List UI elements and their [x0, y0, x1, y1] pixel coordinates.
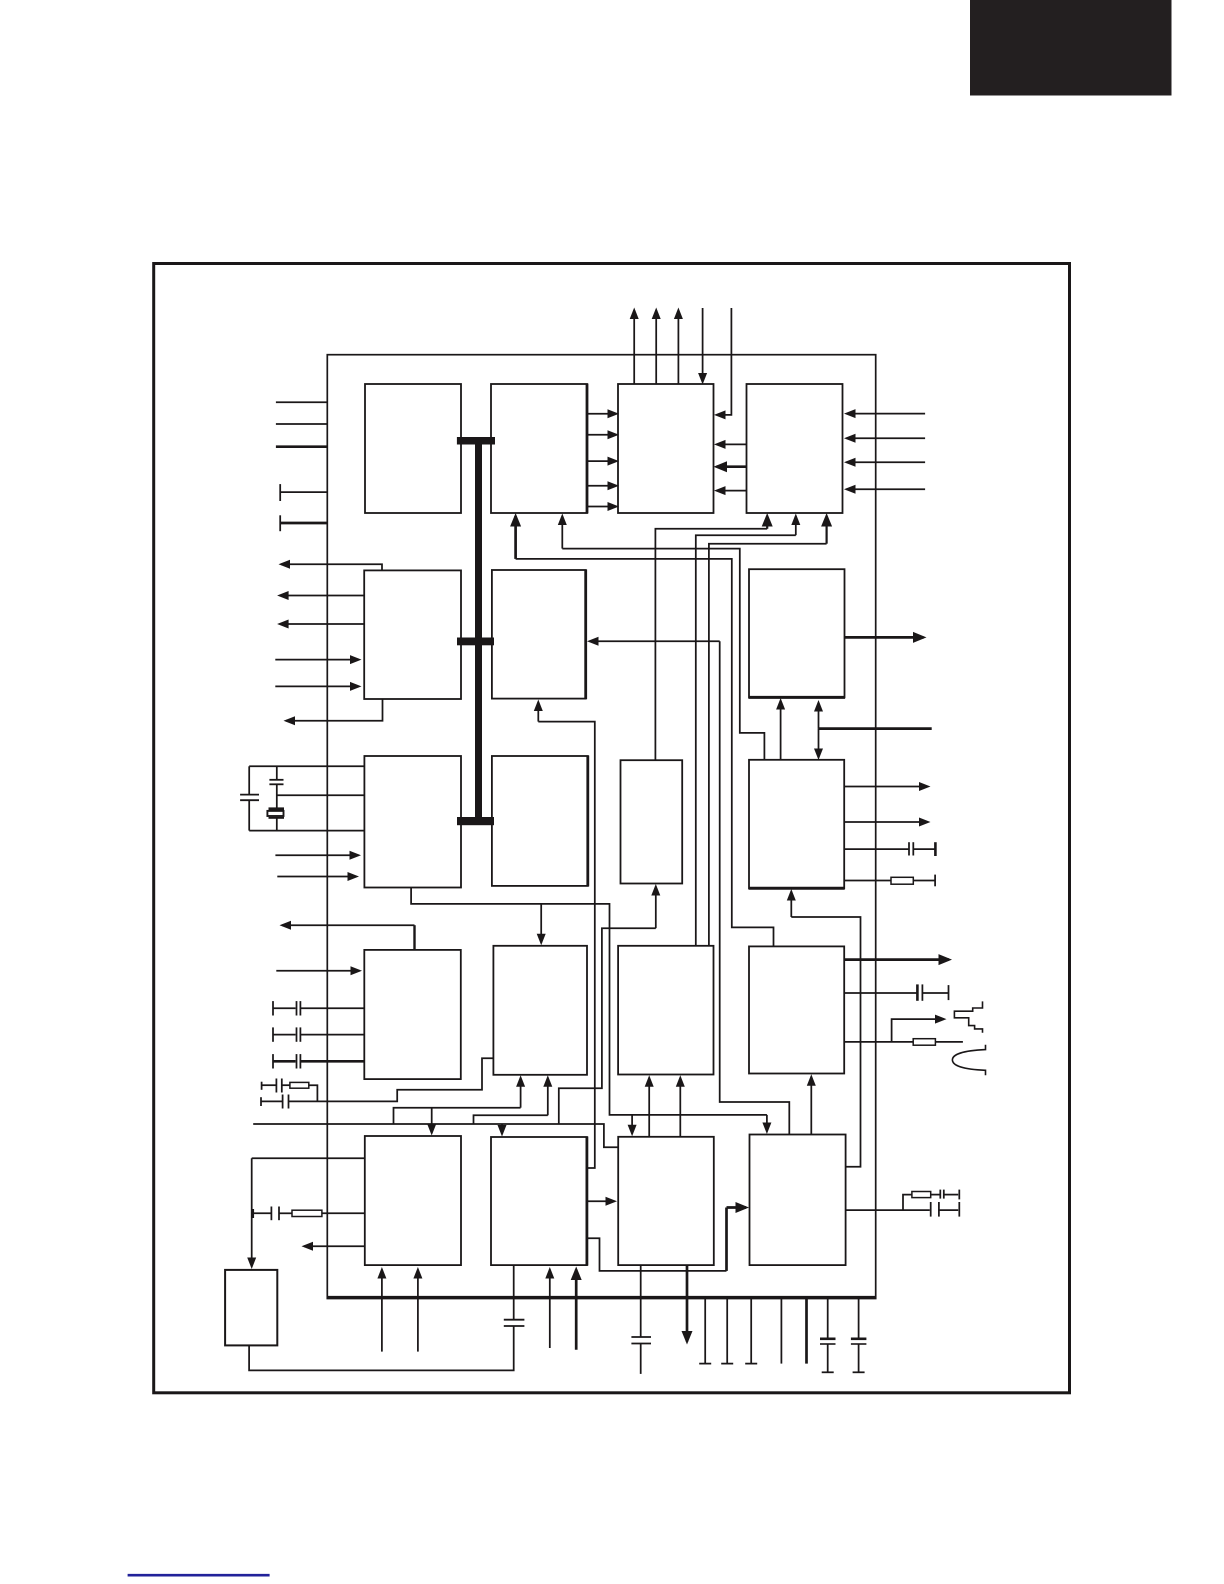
stub arrow into R5C2 bottom B thick	[575, 1270, 578, 1350]
arrow R5C2 to R5C3	[587, 1200, 615, 1202]
terminal bar L19	[252, 1209, 254, 1218]
branch arrow into R4C2 top	[540, 904, 542, 943]
thick out-arrow R2C4 right	[845, 636, 924, 639]
arrow R3C4 top to R2C4 bottom	[780, 701, 782, 760]
thick stub from double arrow to right	[819, 727, 932, 730]
pin in-arrow L13	[277, 876, 356, 878]
arrow R1C2 to R1C3 #2	[587, 434, 617, 436]
terminal bar RC bottom	[260, 1097, 262, 1106]
capacitor R5C4 upper	[939, 1190, 941, 1199]
ground stub 1	[704, 1298, 706, 1363]
pin in-arrow L15	[276, 970, 359, 972]
capacitor EXT net	[504, 1325, 525, 1327]
wire R5C2 right edge to R2C2 bottom arrow	[538, 722, 595, 1168]
wire control net main	[253, 1124, 618, 1147]
block R3C4	[749, 760, 845, 888]
bus bar vertical	[475, 440, 482, 822]
block R3C1	[364, 756, 461, 888]
pin stub L2	[276, 423, 327, 425]
terminal bar R5C4 upper	[958, 1190, 960, 1200]
block R5C4	[750, 1135, 846, 1266]
open stub 4	[780, 1298, 782, 1363]
resistor L19	[279, 1212, 292, 1214]
thick down arrow R5C3 bottom	[686, 1265, 689, 1341]
arrow R1C4 to R1C3 #1	[717, 443, 747, 445]
pin stub L1	[276, 401, 327, 403]
terminal bar L4	[279, 484, 281, 501]
wire R3C1 bottom fanout	[411, 888, 767, 1115]
double arrow R2C4 / R3C4	[818, 703, 820, 729]
bus tap middle	[457, 638, 494, 646]
resistor RC	[282, 1084, 290, 1086]
pin stub L3 thick	[276, 445, 327, 448]
arrow R1C2 to R1C3 #3	[587, 460, 617, 462]
pin in-arrow L9	[275, 659, 359, 661]
pin in-arrow R1C4 right #4	[847, 488, 926, 490]
ground stub 3	[750, 1298, 752, 1363]
stub arrow into R5C2 bottom A	[549, 1270, 551, 1349]
branch arrow into R5C2 top	[501, 1124, 503, 1134]
pin in-arrow L10	[275, 685, 359, 687]
block R5C2	[491, 1137, 587, 1266]
capacitor osc left	[248, 766, 250, 794]
wire osc pin 1	[249, 765, 364, 767]
arrow R1C4 to R1C3 #2 thick	[717, 465, 747, 468]
wire R5C1 to EXT arrow	[252, 1157, 365, 1159]
block R4C2	[493, 946, 587, 1075]
thick stub 5	[805, 1298, 808, 1363]
pin out-arrow L7	[280, 595, 365, 597]
capacitor stub 7	[858, 1298, 860, 1338]
ground stub 2	[726, 1298, 728, 1363]
pin in-arrow top 4	[702, 308, 704, 382]
pin stub L4	[280, 491, 327, 493]
IC boundary thick bottom edge	[327, 1296, 877, 1299]
pin out-arrow L20	[304, 1245, 365, 1247]
arrow R5C4 top to R4C4 bottom	[810, 1077, 812, 1135]
capacitor L19	[253, 1212, 271, 1214]
terminal bar R5C4 lower	[958, 1202, 960, 1217]
thick out-arrow R4C4	[844, 958, 949, 961]
sine waveform glyph	[952, 1045, 985, 1076]
outer frame	[154, 264, 1070, 1393]
wire R4C4 top to R1C2 bottom arrow (thick)	[516, 559, 774, 947]
block R3C3	[621, 760, 683, 883]
block R1C1	[365, 384, 461, 513]
pin out-arrow L14 (thick stub)	[413, 925, 415, 950]
wire R4C3 top to R1C4 bottom arrow A	[696, 535, 796, 946]
capacitor stub R5C3	[640, 1265, 642, 1337]
arrow R5C3 top to R4C3 bottom B	[679, 1078, 681, 1137]
IC boundary	[327, 355, 875, 1299]
pin stub L5 thick	[280, 522, 327, 525]
bus tap bottom	[457, 817, 494, 825]
branch up to sub-line A	[394, 1108, 521, 1124]
pin out-arrow R3C4 #2	[844, 821, 928, 823]
block R5C1	[365, 1136, 461, 1265]
wire R5C2 to R5C4 thick arrow	[587, 1238, 727, 1271]
arrow R1C2 to R1C3 #5	[587, 506, 617, 508]
resistor R5C4 upper	[903, 1195, 912, 1211]
branch up to R3C3 bottom arrow	[559, 928, 656, 1124]
resistor pin R3C4	[844, 880, 891, 882]
block R4C4	[749, 946, 844, 1073]
block R2C4	[749, 569, 846, 697]
wire R3C3 top to R1C4 bottom arrow (thick head)	[655, 529, 767, 760]
capacitor pin L17	[272, 1027, 274, 1041]
capacitor osc mid	[276, 766, 278, 780]
wire to R2C2 right edge arrow and R5C4 top	[720, 641, 790, 1134]
block R1C4	[747, 384, 843, 513]
black corner tab	[970, 0, 1172, 96]
wire osc pin 3	[249, 830, 364, 832]
arrow R1C2 to R1C3 #1	[587, 413, 617, 415]
block R1C2	[491, 384, 587, 514]
block R4C1	[364, 950, 461, 1079]
terminal bar L5	[279, 515, 281, 531]
branch arrow into R5C3 top	[631, 1115, 633, 1134]
staircase waveform glyph	[954, 1001, 982, 1032]
pin out-arrow top 2	[655, 310, 657, 384]
stub arrow into R5C1 bottom B	[417, 1270, 419, 1352]
wire R4C3 top to R1C4 bottom arrow B	[709, 544, 827, 946]
arrow to staircase glyph	[892, 1019, 944, 1042]
hyperlink underline	[128, 1574, 270, 1577]
stub arrow into R5C1 bottom A	[381, 1270, 383, 1352]
bus tap top	[457, 437, 495, 445]
pin out-arrow L11	[286, 699, 383, 721]
arrow R1C2 to R1C3 #4	[587, 485, 617, 487]
block R2C1	[364, 570, 461, 699]
capacitor RC top	[262, 1084, 276, 1086]
resistor pin R4C4	[844, 1041, 913, 1043]
wire EXT bottom to R5C2 cap	[249, 1326, 514, 1370]
capacitor pin L16	[272, 1001, 274, 1015]
block R2C2	[492, 570, 586, 700]
pin out-arrow R3C4 #1	[844, 786, 928, 788]
wire R5C4 right pin	[846, 1209, 930, 1211]
block R5C3	[618, 1137, 714, 1265]
pin out-arrow L8	[280, 623, 365, 625]
block R1C3	[618, 384, 714, 513]
capacitor R5C4 lower	[930, 1202, 932, 1217]
block R4C3	[618, 946, 713, 1075]
terminal bar RC top	[261, 1082, 263, 1090]
block EXT regulator	[225, 1270, 277, 1346]
arrow R5C3 top to R4C3 bottom A	[648, 1078, 650, 1137]
pin out-arrow top 3	[677, 310, 679, 384]
pin in-arrow L12	[275, 854, 358, 856]
wire R3C4 top to R1C2 bottom arrow	[562, 549, 764, 760]
wire top pin 5 to R1C3 right	[717, 308, 732, 415]
pin in-arrow R1C4 right #1	[847, 413, 926, 415]
pin in-arrow R1C4 right #3	[847, 461, 926, 463]
crystal X1	[269, 807, 285, 810]
wire osc pin 2	[277, 794, 365, 796]
pin out-arrow L6	[281, 564, 382, 570]
capacitor pin L18	[272, 1054, 274, 1068]
arrow R1C4 to R1C3 #3	[717, 490, 747, 492]
wire R5C4 right to R3C4 bottom arrow	[791, 917, 860, 1167]
pin in-arrow R1C4 right #2	[847, 437, 926, 439]
block R3C2	[492, 756, 588, 887]
branch up to sub-line B	[474, 1115, 548, 1124]
capacitor pin R3C4	[844, 848, 908, 850]
wire RC output to R4C2 left	[289, 1058, 494, 1101]
capacitor pin R4C4	[844, 992, 916, 994]
capacitor stub 6	[827, 1298, 829, 1338]
pin out-arrow top 1	[633, 310, 635, 384]
branch arrow into R5C1 top	[431, 1108, 433, 1133]
capacitor RC bottom	[261, 1100, 282, 1102]
